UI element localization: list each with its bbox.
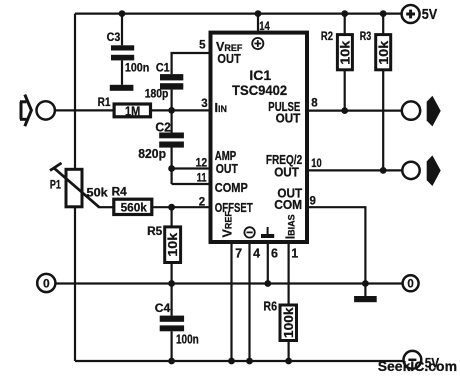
- svg-text:OUT: OUT: [217, 52, 241, 66]
- svg-text:12: 12: [196, 158, 208, 170]
- svg-text:5: 5: [199, 40, 206, 52]
- svg-text:820p: 820p: [138, 147, 166, 161]
- svg-text:14: 14: [259, 21, 270, 33]
- svg-text:IC1: IC1: [249, 67, 271, 83]
- svg-text:OUT: OUT: [276, 111, 301, 125]
- svg-text:2: 2: [199, 197, 205, 209]
- svg-text:100n: 100n: [176, 333, 199, 347]
- svg-text:560k: 560k: [121, 202, 148, 214]
- svg-text:C3: C3: [107, 32, 121, 44]
- svg-text:R3: R3: [360, 31, 372, 43]
- svg-text:P1: P1: [50, 180, 61, 192]
- svg-text:100k: 100k: [282, 307, 296, 338]
- svg-text:3: 3: [201, 98, 207, 110]
- svg-text:4: 4: [253, 246, 260, 260]
- svg-text:5V: 5V: [422, 7, 438, 23]
- svg-text:0: 0: [43, 276, 50, 290]
- svg-text:R5: R5: [147, 226, 163, 238]
- svg-text:IIN: IIN: [215, 101, 227, 115]
- svg-text:11: 11: [197, 173, 207, 185]
- svg-text:R6: R6: [263, 300, 277, 314]
- svg-text:VREF: VREF: [221, 211, 235, 238]
- svg-text:6: 6: [271, 246, 278, 260]
- svg-text:R1: R1: [98, 97, 111, 109]
- svg-text:COM: COM: [274, 198, 302, 212]
- svg-text:R2: R2: [321, 31, 333, 43]
- svg-text:7: 7: [235, 246, 242, 260]
- svg-text:R4: R4: [112, 187, 128, 199]
- svg-text:C1: C1: [156, 63, 170, 75]
- svg-text:AMP: AMP: [215, 149, 236, 163]
- svg-text:180p: 180p: [145, 89, 169, 101]
- svg-text:IBIAS: IBIAS: [284, 214, 298, 239]
- svg-text:1M: 1M: [125, 104, 140, 118]
- svg-text:10k: 10k: [166, 233, 180, 257]
- svg-text:C2: C2: [155, 121, 171, 135]
- svg-text:10k: 10k: [338, 41, 352, 65]
- svg-text:OUT: OUT: [274, 165, 299, 179]
- svg-text:OFFSET: OFFSET: [215, 201, 253, 215]
- svg-text:C4: C4: [155, 303, 171, 315]
- svg-text:COMP: COMP: [215, 181, 248, 195]
- svg-text:0: 0: [407, 279, 413, 291]
- svg-text:8: 8: [311, 97, 318, 109]
- svg-text:50k: 50k: [87, 187, 109, 199]
- svg-text:10: 10: [311, 158, 322, 170]
- svg-text:100n: 100n: [125, 63, 149, 75]
- svg-text:1: 1: [291, 246, 298, 260]
- svg-text:10k: 10k: [377, 41, 391, 65]
- svg-text:SeekIC.com: SeekIC.com: [378, 358, 457, 374]
- svg-text:OUT: OUT: [216, 162, 239, 176]
- svg-text:9: 9: [310, 195, 316, 207]
- svg-text:TSC9402: TSC9402: [232, 82, 287, 98]
